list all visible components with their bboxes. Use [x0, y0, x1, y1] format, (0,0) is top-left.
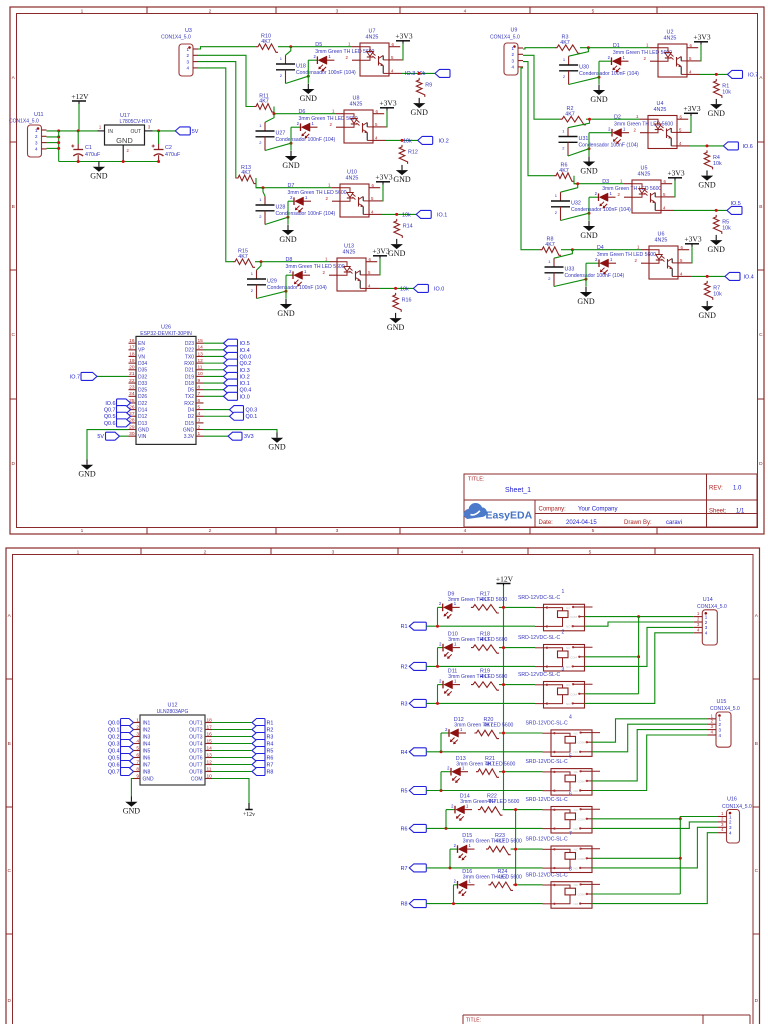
svg-text:GND: GND [699, 311, 717, 320]
power +3V3 [683, 104, 700, 116]
ground [279, 225, 297, 244]
ground [388, 239, 406, 258]
wire [511, 848, 543, 850]
svg-text:IN: IN [108, 129, 113, 135]
wire [585, 616, 694, 618]
svg-text:IN8: IN8 [143, 769, 151, 775]
svg-text:NC: NC [574, 883, 579, 887]
svg-text:4: 4 [711, 730, 714, 735]
wire [132, 771, 135, 773]
wire [257, 291, 287, 298]
svg-text:IO.0: IO.0 [240, 394, 250, 400]
svg-text:1: 1 [721, 811, 724, 816]
svg-text:4: 4 [375, 135, 378, 140]
led D3 [595, 179, 662, 209]
wire [132, 729, 135, 731]
svg-text:3mm Green TH LED 5600: 3mm Green TH LED 5600 [448, 637, 507, 643]
junction [77, 129, 80, 132]
svg-text:R6: R6 [267, 756, 274, 762]
junction [157, 129, 160, 132]
svg-text:1: 1 [636, 114, 639, 119]
svg-text:Q0.5: Q0.5 [108, 756, 120, 762]
svg-text:COM: COM [578, 857, 586, 861]
net flag IO.4 [725, 272, 754, 280]
wire [592, 724, 708, 752]
svg-text:IN6: IN6 [143, 755, 151, 761]
wire [204, 375, 224, 377]
junction [273, 112, 276, 115]
svg-text:IO.3 10k: IO.3 10k [405, 71, 426, 77]
wire [449, 849, 451, 868]
svg-text:B: B [759, 204, 762, 210]
svg-text:CON1X4_5.0: CON1X4_5.0 [710, 706, 740, 712]
net flag R7 [401, 864, 427, 872]
capacitor U29 100nF [247, 270, 327, 298]
svg-text:COM: COM [191, 776, 203, 782]
svg-text:1: 1 [620, 179, 623, 184]
svg-text:6: 6 [569, 791, 572, 797]
svg-text:5V: 5V [192, 129, 199, 135]
svg-text:2: 2 [644, 56, 647, 61]
svg-text:TX0: TX0 [185, 354, 194, 360]
net flag IO.2 [418, 136, 449, 144]
net flag R1 [401, 622, 427, 630]
svg-text:A: A [12, 75, 16, 81]
svg-text:2: 2 [439, 678, 442, 683]
wire [592, 827, 718, 868]
svg-text:4N25: 4N25 [654, 107, 667, 113]
svg-text:17: 17 [207, 724, 213, 730]
wire [674, 209, 727, 211]
svg-text:10k: 10k [402, 212, 411, 218]
wire [599, 60, 612, 62]
junction [576, 182, 579, 185]
ground [590, 85, 608, 104]
wire [212, 779, 249, 804]
power +12v [243, 803, 255, 818]
net flag IO.1 [224, 379, 250, 387]
wire [438, 684, 444, 686]
wire [204, 415, 230, 417]
wire [204, 362, 224, 364]
svg-text:R1: R1 [401, 624, 408, 630]
wire [381, 185, 384, 201]
svg-text:2: 2 [635, 258, 638, 263]
wire [437, 648, 439, 667]
wire [592, 857, 680, 859]
junction [57, 135, 60, 138]
svg-text:16: 16 [129, 338, 135, 344]
ground [699, 301, 717, 320]
svg-text:A: A [8, 613, 12, 619]
svg-text:D22: D22 [185, 348, 194, 354]
svg-text:1: 1 [280, 56, 283, 61]
svg-text:C: C [7, 868, 11, 874]
wire [307, 60, 309, 83]
wire [568, 149, 589, 156]
power +3V3 [684, 235, 701, 247]
wire [554, 279, 586, 286]
wire [198, 47, 256, 49]
svg-text:Condensador 100nF (104): Condensador 100nF (104) [267, 285, 327, 291]
wire [453, 885, 455, 904]
junction [571, 248, 574, 251]
svg-text:2024-04-15: 2024-04-15 [566, 520, 597, 526]
svg-text:R14: R14 [403, 223, 413, 229]
svg-text:1: 1 [325, 257, 328, 262]
resistor R14 10k [394, 219, 413, 238]
wire [132, 750, 135, 752]
svg-text:R8: R8 [401, 902, 408, 908]
svg-text:3: 3 [148, 125, 151, 130]
net flag R1 [252, 719, 273, 727]
svg-text:GND: GND [277, 309, 295, 318]
wire [47, 147, 59, 149]
net flag R4 [401, 748, 427, 756]
wire [212, 729, 252, 731]
svg-text:4K7: 4K7 [480, 674, 490, 680]
svg-text:D32: D32 [138, 374, 147, 380]
wire [263, 188, 265, 197]
svg-text:COM: COM [578, 779, 586, 783]
wire [47, 130, 98, 132]
svg-text:1: 1 [563, 57, 566, 62]
wire [256, 178, 263, 188]
svg-text:U30: U30 [579, 65, 589, 71]
wire [450, 848, 458, 850]
relay 4 SRD-12VDC-SL-C [526, 715, 601, 757]
svg-text:5: 5 [589, 549, 592, 555]
svg-text:1: 1 [562, 129, 565, 134]
svg-text:4K7: 4K7 [559, 168, 569, 174]
wire [204, 382, 224, 384]
svg-text:4: 4 [679, 141, 682, 146]
svg-text:15: 15 [207, 738, 213, 744]
svg-text:GND: GND [143, 776, 155, 782]
capacitor U31 100nF [559, 128, 639, 156]
wire [204, 369, 224, 371]
svg-text:4K7: 4K7 [480, 637, 490, 643]
svg-text:6: 6 [369, 257, 372, 262]
svg-text:D: D [7, 998, 11, 1004]
svg-text:D5: D5 [188, 388, 195, 394]
svg-text:IO.2: IO.2 [439, 138, 449, 144]
wire [47, 137, 59, 162]
svg-text:Condensador 100nF (104): Condensador 100nF (104) [565, 273, 625, 279]
net flag R4 [252, 740, 273, 748]
svg-text:R5: R5 [267, 749, 274, 755]
svg-text:2: 2 [555, 210, 558, 215]
svg-text:D33: D33 [138, 381, 147, 387]
svg-text:D18: D18 [185, 381, 194, 387]
svg-text:NO: NO [566, 665, 571, 669]
wire [285, 275, 287, 298]
power +3V3 [375, 173, 392, 185]
svg-text:3: 3 [562, 666, 565, 672]
svg-text:13: 13 [207, 752, 213, 758]
title block [464, 474, 757, 527]
resistor R2 4K7 [560, 106, 586, 125]
svg-text:3mm Green TH LED 5600: 3mm Green TH LED 5600 [286, 264, 345, 270]
junction [588, 212, 591, 215]
svg-text:NC: NC [574, 770, 579, 774]
junction [588, 147, 591, 150]
svg-text:4K7: 4K7 [241, 170, 251, 176]
net flag Q0.0 [224, 352, 252, 360]
svg-text:4N25: 4N25 [343, 250, 356, 256]
junction [440, 789, 443, 792]
svg-text:470uF: 470uF [85, 152, 101, 158]
svg-text:4: 4 [464, 8, 467, 14]
net flag IO.6 [105, 399, 130, 407]
svg-text:4K7: 4K7 [485, 761, 495, 767]
led D14 [451, 794, 519, 821]
svg-text:1: 1 [348, 42, 351, 47]
wire [438, 606, 443, 608]
net flag IO.5 [224, 339, 250, 347]
led D6 [297, 109, 358, 139]
wire [446, 809, 455, 811]
svg-text:2: 2 [251, 288, 254, 293]
svg-text:IO.3: IO.3 [240, 368, 250, 374]
svg-text:3: 3 [711, 724, 714, 729]
svg-text:19: 19 [129, 358, 135, 364]
svg-text:9: 9 [198, 378, 201, 384]
junction [436, 702, 439, 705]
resistor R1 10k [714, 79, 732, 98]
svg-text:1: 1 [81, 8, 84, 14]
relay 5 SRD-12VDC-SL-C [526, 753, 601, 795]
wire [569, 48, 589, 57]
svg-text:NO: NO [574, 866, 579, 870]
wire [588, 133, 590, 156]
net flag Q0.2 [224, 359, 252, 367]
junction [706, 144, 709, 147]
resistor R8 4K7 [540, 237, 561, 256]
svg-text:24: 24 [129, 391, 135, 397]
wire [454, 884, 458, 886]
svg-text:GND: GND [78, 470, 96, 479]
wire [212, 750, 252, 752]
svg-text:5: 5 [368, 270, 371, 275]
svg-text:COM: COM [570, 692, 578, 696]
svg-text:10k: 10k [722, 89, 731, 95]
junction [637, 615, 640, 618]
svg-text:4K7: 4K7 [565, 111, 575, 117]
svg-text:4N25: 4N25 [346, 176, 359, 182]
svg-text:+3V3: +3V3 [683, 104, 700, 113]
svg-text:23: 23 [129, 384, 135, 390]
wire [308, 59, 317, 61]
svg-text:U12: U12 [168, 703, 178, 709]
svg-text:29: 29 [129, 424, 135, 430]
svg-text:NO: NO [574, 827, 579, 831]
svg-text:caravi: caravi [666, 520, 682, 526]
junction [57, 141, 60, 144]
svg-text:20: 20 [129, 365, 135, 371]
svg-text:17: 17 [129, 345, 135, 351]
svg-text:3: 3 [332, 549, 335, 555]
svg-text:D25: D25 [138, 388, 147, 394]
svg-text:2: 2 [259, 140, 262, 145]
junction [401, 139, 404, 142]
svg-text:GND: GND [580, 167, 598, 176]
svg-text:3mm Green TH LED 5600: 3mm Green TH LED 5600 [448, 674, 507, 680]
wire [153, 130, 176, 132]
svg-text:VP: VP [138, 348, 145, 354]
wire [87, 430, 129, 460]
resistor R21 4K7 [476, 756, 499, 778]
wire [561, 213, 590, 220]
svg-text:GND: GND [279, 235, 297, 244]
svg-text:D1: D1 [613, 43, 620, 49]
wire [256, 187, 332, 189]
net flag IO.1 [416, 210, 447, 218]
svg-text:NC: NC [574, 848, 579, 852]
wire [586, 262, 599, 264]
svg-text:OUT5: OUT5 [189, 748, 203, 754]
svg-text:2: 2 [634, 128, 637, 133]
svg-text:OUT8: OUT8 [189, 769, 203, 775]
svg-text:NC: NC [574, 808, 579, 812]
wire [638, 617, 640, 694]
junction [307, 75, 310, 78]
svg-text:Q0.2: Q0.2 [240, 361, 252, 367]
svg-text:5: 5 [663, 192, 666, 197]
svg-text:GND: GND [708, 245, 726, 254]
wire trunk [679, 819, 681, 894]
net flag Q0.6 [104, 419, 131, 427]
svg-text:1: 1 [562, 589, 565, 595]
svg-text:18: 18 [129, 351, 135, 357]
svg-text:3: 3 [198, 418, 201, 424]
wire [132, 757, 135, 759]
svg-text:GND: GND [116, 136, 133, 145]
wire [204, 342, 224, 344]
svg-text:2: 2 [721, 816, 724, 821]
wire [499, 771, 543, 773]
svg-text:2: 2 [204, 549, 207, 555]
svg-text:Q0.4: Q0.4 [240, 388, 252, 394]
svg-text:4: 4 [680, 271, 683, 276]
connector U15 CON1X4_5.0 [708, 699, 740, 747]
svg-text:4K7: 4K7 [560, 40, 570, 46]
svg-text:4K7: 4K7 [545, 242, 555, 248]
wire [204, 395, 224, 397]
ground [90, 162, 108, 181]
wire [673, 181, 676, 197]
svg-text:D3: D3 [602, 179, 609, 185]
ground [393, 165, 411, 184]
wire [437, 607, 439, 626]
wire [585, 633, 694, 704]
junction [514, 883, 517, 886]
wire [204, 349, 224, 351]
EasyEDA logo [464, 503, 532, 521]
svg-text:D8: D8 [286, 257, 293, 263]
net flag IO.5 [727, 201, 742, 215]
svg-text:IN3: IN3 [143, 734, 151, 740]
junction [502, 683, 505, 686]
junction [436, 665, 439, 668]
optocoupler U5 4N25 [618, 166, 675, 214]
svg-text:5: 5 [136, 745, 139, 751]
svg-text:TX2: TX2 [185, 394, 194, 400]
svg-text:NO: NO [574, 902, 579, 906]
svg-text:R4: R4 [267, 742, 274, 748]
svg-text:4: 4 [663, 205, 666, 210]
svg-text:3: 3 [336, 528, 339, 534]
junction [502, 732, 505, 735]
net flag Q0.4 [224, 386, 252, 394]
wire [561, 184, 578, 193]
svg-text:1: 1 [328, 183, 331, 188]
svg-text:3.3V: 3.3V [184, 434, 195, 440]
svg-text:SRD-12VDC-SL-C: SRD-12VDC-SL-C [526, 797, 568, 803]
junction [588, 118, 591, 121]
wire [580, 47, 650, 49]
svg-text:2: 2 [280, 73, 283, 78]
svg-text:4K7: 4K7 [259, 99, 269, 105]
svg-text:D4: D4 [597, 245, 604, 251]
wire [585, 263, 587, 286]
svg-text:Q0.7: Q0.7 [104, 408, 116, 414]
svg-text:R3: R3 [401, 701, 408, 707]
svg-text:4K7: 4K7 [238, 254, 248, 260]
svg-text:4: 4 [464, 528, 467, 534]
svg-text:4K7: 4K7 [495, 839, 505, 845]
svg-text:U14: U14 [703, 597, 713, 603]
ground [411, 98, 429, 117]
junction [157, 160, 160, 163]
wire [585, 627, 694, 666]
sheet 1 frame [10, 7, 764, 534]
svg-text:CON1X4_5.0: CON1X4_5.0 [490, 35, 520, 41]
svg-text:1: 1 [251, 271, 254, 276]
capacitor U30 100nF [559, 56, 639, 84]
svg-text:NC: NC [566, 683, 571, 687]
svg-text:U32: U32 [571, 201, 581, 207]
wire +12V rail [503, 586, 505, 810]
power +3V3 [667, 169, 684, 181]
svg-text:D7: D7 [288, 183, 295, 189]
junction [77, 160, 80, 163]
svg-text:6: 6 [136, 752, 139, 758]
svg-text:10k: 10k [722, 225, 731, 231]
svg-text:3mm Green TH LED 5600: 3mm Green TH LED 5600 [299, 116, 358, 122]
wire [129, 402, 131, 404]
svg-text:5V: 5V [97, 434, 104, 440]
svg-text:D23: D23 [185, 341, 194, 347]
junction [395, 213, 398, 216]
net flag R2 [252, 726, 273, 734]
wire [265, 114, 274, 123]
svg-text:SRD-12VDC-SL-C: SRD-12VDC-SL-C [526, 721, 568, 727]
net flag Q0.7 [104, 406, 131, 414]
svg-text:4: 4 [689, 69, 692, 74]
junction [57, 147, 60, 150]
net flag IO.3 [224, 366, 250, 374]
svg-text:5: 5 [375, 122, 378, 127]
svg-text:10: 10 [198, 371, 204, 377]
svg-text:4: 4 [368, 283, 371, 288]
svg-text:D5: D5 [315, 42, 322, 48]
optocoupler U4 4N25 [634, 101, 691, 149]
svg-text:Q0.2: Q0.2 [108, 735, 120, 741]
net flag Q0.7 [108, 768, 134, 776]
svg-text:8: 8 [569, 867, 572, 873]
wire [503, 809, 543, 811]
